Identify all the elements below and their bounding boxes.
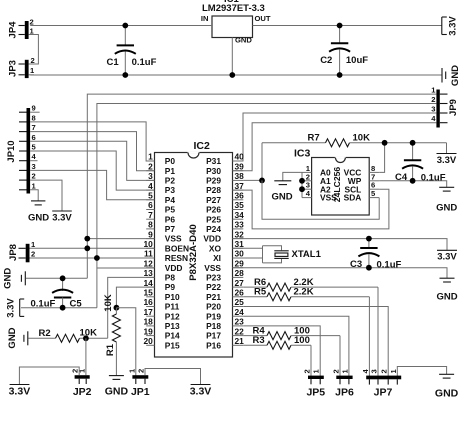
wire JP2.2 to 3.3V [19,367,79,385]
svg-text:7: 7 [148,210,153,220]
wire IC2 pin 12 VDD to 3.3V column [97,267,155,269]
svg-text:20: 20 [143,336,153,346]
wire JP2.1 riser [85,338,87,375]
svg-text:P24: P24 [206,224,221,234]
JP10 pin numbers [32,104,37,191]
wire IC2 pin 14 (P9) riser to R1 node [116,287,154,308]
capacitor C3 0.1uF [350,239,402,271]
svg-text:2: 2 [30,18,34,27]
svg-text:3.3V: 3.3V [9,386,31,398]
svg-text:0.1uF: 0.1uF [421,173,446,184]
svg-text:JP9: JP9 [448,99,459,116]
wire JP10 pin 5 to IC2 pin 4 (P3) [30,151,154,190]
wire SDA route under IC3 to pin 5 [262,180,379,219]
svg-text:3.3V: 3.3V [190,386,212,398]
wire JP10 pin 1 to GND [30,190,38,201]
wire JP9 pin 1 loop to VSS/BOEN column [87,94,436,278]
svg-text:R1: R1 [105,343,116,356]
svg-text:P18: P18 [206,321,221,331]
wire IC2 pin 24 (P19) to JP6.1 [243,316,349,376]
svg-text:3: 3 [370,369,379,373]
svg-text:27: 27 [235,278,245,288]
svg-text:SDA: SDA [344,193,362,203]
wire IC2 pin 38 to SDA node [243,179,262,181]
svg-text:26: 26 [235,288,245,298]
wire JP10 pin 9 stub line [30,111,39,113]
svg-text:35: 35 [235,200,245,210]
svg-text:C2: C2 [320,55,332,66]
ground symbol left (rotated) at R2 [7,327,28,348]
wire R1 node to JP1.1 riser [116,308,135,377]
svg-text:2: 2 [148,161,153,171]
svg-text:P8X32A-D40: P8X32A-D40 [188,224,199,281]
wire JP8.2 to IC2 pin 11 (RESN) [30,257,155,259]
svg-text:30: 30 [235,249,245,259]
JP10 pin stubs (left side) [19,112,27,190]
svg-text:3.3V: 3.3V [448,16,459,36]
junction dot C2 bottom [337,72,343,78]
svg-text:17: 17 [143,307,153,317]
svg-text:XO: XO [209,243,222,253]
svg-text:GND: GND [7,327,18,348]
svg-text:GND: GND [28,213,49,224]
svg-text:VSS: VSS [204,263,221,273]
wire JP3.1 stub to GND rail [29,74,34,76]
svg-text:P29: P29 [206,176,221,186]
svg-text:XTAL1: XTAL1 [292,249,322,260]
svg-text:IC2: IC2 [194,140,211,152]
svg-text:10K: 10K [353,133,371,144]
svg-text:3: 3 [431,105,435,114]
junction dot R2/JP2 node [83,335,89,341]
svg-text:8: 8 [148,220,153,230]
svg-text:JP6: JP6 [335,387,354,399]
svg-text:8: 8 [32,113,36,122]
svg-text:JP5: JP5 [306,387,325,399]
JP9 pin numbers [431,86,436,124]
svg-text:GND: GND [3,268,14,289]
svg-text:6: 6 [148,200,153,210]
svg-text:P0: P0 [165,156,176,166]
svg-text:2: 2 [380,369,389,373]
wire JP9 pin 2 loop to RESN column [97,104,437,308]
resistor R1 10K (vertical) [103,294,120,375]
svg-text:P7: P7 [165,224,176,234]
svg-text:C5: C5 [70,299,83,310]
svg-text:VDD: VDD [203,234,221,244]
svg-text:3.3V: 3.3V [437,252,457,263]
capacitor C2 10uF [320,26,368,76]
svg-text:GND: GND [436,203,457,214]
svg-text:P22: P22 [206,282,221,292]
wire bottom GND rail [30,74,441,76]
svg-text:P20: P20 [206,302,221,312]
svg-text:2: 2 [137,369,146,373]
junction dot VCC riser [382,140,388,146]
svg-text:3: 3 [148,171,153,181]
wire GND line to C5 top [26,277,87,279]
wire R7 left riser to IC2 pin 38 (P29/SDA) [261,143,263,181]
svg-text:P2: P2 [165,176,176,186]
connector JP5 [303,369,326,399]
svg-text:4: 4 [148,181,153,191]
svg-text:0.1uF: 0.1uF [31,299,56,310]
wire JP10 pin 6 to IC2 pin 3 (P2) [30,141,154,180]
junction dot C4 top [410,140,416,146]
wire JP10 pin 8 to IC2 pin 1 (P0) [30,122,154,161]
svg-text:10K: 10K [103,294,114,312]
svg-text:39: 39 [235,161,245,171]
svg-text:P27: P27 [206,195,221,205]
svg-text:29: 29 [235,258,245,268]
svg-text:JP8: JP8 [8,244,19,261]
svg-text:R3: R3 [253,335,265,346]
wire IC3 pins 1-4 common vertical [301,172,303,197]
ground symbol below JP10 [28,201,49,224]
wire 3.3V line through C5 bottom [21,307,97,309]
svg-text:40: 40 [235,152,245,162]
supply 3.3V left (rotated) [6,298,25,318]
wire R2 line from GND symbol [29,337,56,339]
svg-text:C1: C1 [107,57,120,68]
svg-text:XI: XI [213,253,221,263]
supply 3.3V bottom middle [190,385,212,398]
svg-text:0.1uF: 0.1uF [377,260,402,271]
connector JP2 [71,368,92,398]
svg-text:VSS: VSS [165,234,182,244]
junction dot BOEN column [84,245,90,251]
svg-text:5: 5 [148,191,153,201]
svg-text:VDD: VDD [165,263,183,273]
resistor R2 10K [39,328,108,343]
svg-text:P28: P28 [206,185,221,195]
svg-text:28: 28 [235,268,245,278]
svg-text:P26: P26 [206,205,221,215]
junction dot C5 top [60,275,66,281]
ground symbol below R1 [105,376,129,398]
svg-text:25: 25 [235,297,245,307]
svg-text:BOEN: BOEN [165,243,189,253]
svg-text:GND: GND [436,292,457,303]
resistor R5 2.2K [243,287,369,301]
svg-text:R5: R5 [254,287,267,298]
svg-text:GND: GND [235,36,252,45]
svg-text:100: 100 [294,335,310,346]
svg-text:22: 22 [235,326,245,336]
wire JP10 pin 7 to IC2 pin 2 (P1) [30,132,154,171]
svg-text:GND: GND [435,388,459,400]
wire top rail regulator OUT to 3.3V symbol [253,25,442,27]
svg-text:9: 9 [32,104,36,113]
resistor R3 100 [243,335,311,349]
connector JP3 [8,56,35,78]
wire JP9 pin 3 to IC2 pin 40 (P31) [233,113,437,161]
svg-text:JP2: JP2 [73,386,92,398]
junction dot VSS column [84,236,90,242]
junction dot pin38 SDA [259,178,265,184]
junction dot C5 bottom [60,305,66,311]
wire JP10 pin 3 to IC2 pin 5 (P4) [30,170,154,199]
wire JP10 pin 4 stub line [30,160,37,162]
svg-text:13: 13 [143,268,153,278]
svg-text:P9: P9 [165,282,176,292]
svg-text:3: 3 [32,162,36,171]
svg-text:P17: P17 [206,331,221,341]
wire top rail from JP4.2 to regulator IN [30,25,212,27]
svg-text:P14: P14 [165,331,180,341]
svg-text:10uF: 10uF [346,55,368,66]
voltage regulator IC1 LM2937ET-3.3 [201,3,271,45]
wire IC3 pin8 VCC riser to 3.3V rail [379,143,384,173]
svg-text:32: 32 [235,229,245,239]
svg-text:P8: P8 [165,273,176,283]
svg-text:JP3: JP3 [8,60,19,77]
svg-text:P4: P4 [165,195,176,205]
svg-text:IC3: IC3 [294,148,311,160]
svg-text:GND: GND [271,192,292,203]
svg-text:15: 15 [143,288,153,298]
wire R2 node riser to IC2 pin 13 (P8) [108,277,155,338]
svg-text:LM2937ET-3.3: LM2937ET-3.3 [202,3,265,14]
svg-text:9: 9 [148,229,153,239]
ground symbol mid right [436,278,457,302]
svg-text:C3: C3 [350,259,362,270]
svg-text:12: 12 [143,258,153,268]
svg-text:P25: P25 [206,214,221,224]
svg-text:R2: R2 [39,328,51,339]
svg-text:JP10: JP10 [6,140,17,162]
svg-text:GND: GND [105,386,129,398]
svg-text:11: 11 [144,249,153,259]
svg-text:RESN: RESN [165,253,188,263]
capacitor C1 0.1uF [107,26,157,76]
wire R6 to JP7.3 [377,287,379,376]
wire JP1.2 to 3.3V [145,369,201,385]
wire IC2 pin 23 (P18) to JP5.1 [243,326,320,376]
svg-text:P6: P6 [165,214,176,224]
junction dot C2 top [337,23,343,29]
wire JP10 pin 2 to 3.3V [30,180,62,211]
svg-text:2.2K: 2.2K [294,287,314,298]
svg-text:0.1uF: 0.1uF [132,57,157,68]
svg-text:2: 2 [31,56,35,65]
svg-text:P11: P11 [165,302,180,312]
svg-text:VSS: VSS [320,193,337,203]
ground symbol bottom right [435,374,459,399]
supply 3.3V below JP10 [52,211,72,224]
svg-text:10: 10 [143,239,153,249]
ground symbol at IC3 [271,181,292,203]
svg-text:JP7: JP7 [374,387,393,399]
svg-text:P1: P1 [165,166,176,176]
svg-text:P23: P23 [206,273,221,283]
wire regulator GND pin stub [231,38,233,76]
wire IC3 pin1 to ground [283,172,302,180]
resistor R4 100 [243,325,340,339]
wire R3 to JP5.2 [310,345,312,376]
wire JP4.1 to JP3.2 link [29,35,39,65]
svg-text:P31: P31 [206,156,221,166]
supply 3.3V bottom left [9,385,31,398]
svg-text:P5: P5 [165,205,176,215]
wire IC2 pin 37 (P28/SCL) route under IC3 to pin 6 [233,189,389,229]
svg-text:31: 31 [235,239,245,249]
resistor R6 2.2K [243,277,378,291]
svg-text:IN: IN [201,14,209,23]
svg-text:JP4: JP4 [8,21,19,39]
svg-text:33: 33 [235,220,245,230]
junction dot C3 bottom [366,265,372,271]
connector JP10 [6,108,30,194]
wire JP9 pin 4 to IC2 pin 39 (P30) [233,123,437,171]
svg-text:2: 2 [303,369,312,373]
wire JP8.1 to IC2 pin 10 (BOEN) [30,247,155,249]
capacitor C5 0.1uF [31,278,83,309]
svg-text:P16: P16 [206,340,221,350]
wire IC3 pin7 WP line to C4 and GND [379,181,447,188]
junction dot C4 bottom [410,178,416,184]
wire R4 to JP6.2 [339,336,341,377]
svg-text:19: 19 [143,326,153,336]
IC3 24LC256 [294,148,379,216]
svg-text:2: 2 [332,369,341,373]
ground symbol left (rotated) below JP8 [3,268,26,289]
svg-text:R7: R7 [308,133,320,144]
svg-text:3.3V: 3.3V [6,298,17,318]
connector JP6 [332,369,354,399]
svg-text:P21: P21 [206,292,221,302]
svg-text:3.3V: 3.3V [437,155,457,166]
svg-text:JP1: JP1 [131,386,150,398]
wire JP7.1 to ground [397,367,446,377]
wire IC2 pin 9 VSS from column [87,238,154,240]
svg-text:OUT: OUT [255,14,271,23]
wire VSS rail (pin 29) to C3 and GND [233,268,448,279]
svg-text:36: 36 [235,191,245,201]
svg-text:C4: C4 [395,172,408,183]
junction dot regulator GND [229,72,235,78]
svg-text:P3: P3 [165,185,176,195]
svg-text:P19: P19 [206,311,221,321]
svg-text:7: 7 [32,123,36,132]
svg-text:GND: GND [450,65,461,86]
svg-text:P13: P13 [165,321,180,331]
ground symbol right of C4 [436,187,457,213]
svg-text:2: 2 [32,172,36,181]
IC2 P8X32A-D40 [143,140,244,357]
junction dot IC3 pin2 [299,178,305,184]
svg-text:6: 6 [32,133,36,142]
ground symbol top right [442,65,461,86]
wire IC2 pin 25 (P20) to JP7.2 [243,307,388,377]
junction dot C1 bottom [122,72,128,78]
svg-text:38: 38 [235,171,245,181]
svg-text:P15: P15 [165,340,180,350]
svg-text:16: 16 [143,297,153,307]
resistor R7 10K [262,133,447,147]
svg-text:P30: P30 [206,166,221,176]
supply 3.3V mid right [437,250,457,262]
svg-text:34: 34 [235,210,245,220]
svg-text:21: 21 [235,336,245,346]
connector JP8 [8,240,36,262]
JP9 pin stubs (right side) [440,94,448,123]
supply 3.3V right of R7 [437,143,457,166]
junction dot C1 top [122,23,128,29]
svg-text:3.3V: 3.3V [52,213,72,224]
connector JP9 [436,90,459,128]
svg-text:24: 24 [235,307,245,317]
svg-text:1: 1 [148,152,153,162]
crystal XTAL1 [233,246,322,263]
connector JP4 [8,18,35,40]
svg-text:14: 14 [143,278,153,288]
svg-text:P10: P10 [165,292,180,302]
svg-text:2: 2 [431,95,435,104]
supply 3.3V top right [442,16,459,36]
junction dot C3 top [366,236,372,242]
wire R5 to JP7.4 [368,297,370,376]
junction dot RESN column [94,255,100,261]
connector JP7 [361,369,401,399]
svg-text:2: 2 [31,250,35,259]
svg-text:18: 18 [143,317,153,327]
svg-text:23: 23 [235,317,245,327]
svg-text:37: 37 [235,181,245,191]
wire VDD rail (pin 32) to C3 and 3.3V [233,239,448,251]
capacitor C4 0.1uF [395,143,446,184]
junction dot R1 top node [114,305,120,311]
connector JP1 [127,368,149,398]
junction dot IC3 pin3 [299,186,305,192]
svg-text:P12: P12 [165,311,180,321]
